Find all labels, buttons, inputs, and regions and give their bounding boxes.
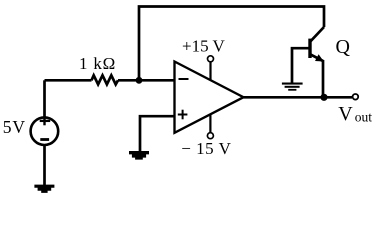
svg-text:5V: 5V — [3, 117, 26, 137]
svg-text:+15 V: +15 V — [182, 37, 226, 56]
svg-text:1 kΩ: 1 kΩ — [79, 54, 116, 73]
svg-text:− 15 V: − 15 V — [181, 139, 231, 158]
svg-text:Q: Q — [336, 36, 351, 58]
